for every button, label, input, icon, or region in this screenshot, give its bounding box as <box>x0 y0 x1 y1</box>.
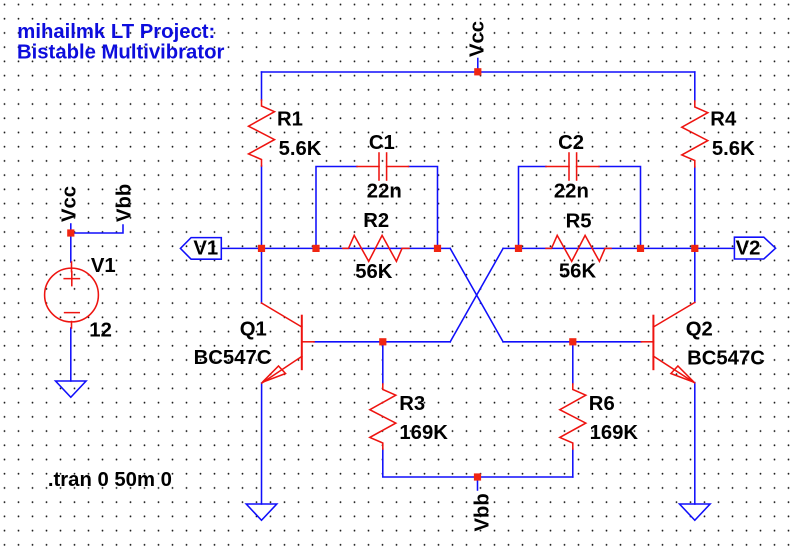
wire: Q2 collector riser <box>694 248 696 302</box>
wire: cross-coupling diagonal B (R5 left to Q1 base) <box>450 248 503 341</box>
ground: below V1 source <box>56 381 87 397</box>
voltage source V1 minus sign <box>65 312 80 314</box>
capacitor C2 right plate <box>576 153 578 180</box>
resistor R6 body <box>560 384 586 449</box>
svg-text:V1: V1 <box>91 255 116 277</box>
svg-text:169K: 169K <box>399 422 448 444</box>
svg-text:5.6K: 5.6K <box>712 138 755 160</box>
junction: Vbb bottom rail <box>474 473 481 480</box>
junction: node V2 at R4 / Q2 collector <box>691 245 698 252</box>
svg-text:Q1: Q1 <box>240 319 267 341</box>
svg-text:56K: 56K <box>355 261 393 283</box>
junction: node V1 at C1 left <box>312 245 319 252</box>
wire: Q2 base horizontal <box>503 341 641 343</box>
wire: V1 source top lead <box>70 224 72 262</box>
svg-text:R5: R5 <box>566 210 592 232</box>
transistor Q1 base lead <box>302 341 314 343</box>
svg-text:Vbb: Vbb <box>472 493 494 531</box>
capacitor C1 right lead <box>387 166 409 168</box>
wire: right column R4 to node V2 <box>694 167 696 248</box>
voltage source V1 plus sign <box>64 272 79 286</box>
transistor Q2 collector line <box>653 302 694 327</box>
svg-text:BC547C: BC547C <box>194 347 272 369</box>
wire: Vbb bottom label stub <box>477 477 479 490</box>
junction: Q1 base / R3 top <box>379 338 386 345</box>
resistor R2 body <box>343 235 409 261</box>
resistor R3 body <box>370 384 396 449</box>
svg-text:5.6K: 5.6K <box>279 138 322 160</box>
wire: node V2 horizontal row <box>503 247 734 249</box>
resistor R5 body <box>546 235 611 261</box>
transistor Q1 emitter line <box>262 356 302 383</box>
port flag V1 <box>180 238 221 260</box>
capacitor C2 left plate <box>568 153 570 180</box>
resistor R4 body <box>682 101 708 167</box>
wire: left column above R1 <box>261 72 263 100</box>
svg-text:Vbb: Vbb <box>114 184 136 222</box>
junction: node V1 at R1 / Q1 collector <box>258 245 265 252</box>
resistor R1 body <box>249 100 275 166</box>
ground: below Q2 emitter <box>680 504 711 520</box>
wire: node V1 horizontal row <box>221 247 450 249</box>
wire: left column R1 to node V1 <box>261 166 263 248</box>
wire: cross-coupling diagonal A (R2 right to Q2 base) <box>450 248 503 341</box>
voltage source V1 top pin lead <box>71 262 73 272</box>
svg-text:C2: C2 <box>558 132 584 154</box>
junction: node V2 at C2 right <box>637 245 644 252</box>
ground: below Q1 emitter <box>246 504 277 520</box>
wire: Q2 emitter to ground <box>694 383 696 504</box>
svg-text:R4: R4 <box>710 108 737 130</box>
voltage source V1 bottom pin lead <box>71 322 73 329</box>
wire: right column above R4 <box>694 72 696 101</box>
port flag V2 <box>734 237 775 259</box>
transistor Q1 collector line <box>262 303 302 327</box>
junction: Q2 base / R6 top <box>569 338 576 345</box>
wire: R3 bottom to Vbb rail <box>383 449 573 477</box>
svg-text:.tran 0 50m 0: .tran 0 50m 0 <box>48 469 172 491</box>
svg-text:R3: R3 <box>399 393 425 415</box>
transistor Q2 emitter line <box>653 356 694 383</box>
svg-text:V1: V1 <box>193 238 218 260</box>
svg-text:Q2: Q2 <box>686 319 713 341</box>
wire: R6 top lead <box>572 342 574 384</box>
wire: R6 bottom lead <box>572 449 574 477</box>
svg-text:R2: R2 <box>363 210 389 232</box>
wire: Q1 base horizontal <box>314 341 450 343</box>
svg-text:C1: C1 <box>369 132 395 154</box>
wire: C2 left riser <box>519 167 547 249</box>
wire: C2 right riser <box>599 167 641 249</box>
voltage source V1 circle <box>45 268 99 322</box>
wire: Vcc top rail <box>262 71 695 73</box>
junction: V1 source top node <box>67 229 74 236</box>
svg-text:V2: V2 <box>736 238 761 260</box>
transistor Q2 base lead <box>641 341 653 343</box>
svg-text:Vcc: Vcc <box>467 21 489 57</box>
wire: Q1 collector riser <box>261 248 263 303</box>
transistor Q2 emitter arrow <box>671 366 694 382</box>
junction: R2 right / C1 right node <box>434 245 441 252</box>
transistor Q1 emitter arrow <box>262 366 285 382</box>
capacitor C1 right plate <box>386 153 388 180</box>
svg-text:mihailmk LT Project:: mihailmk LT Project: <box>17 21 215 43</box>
svg-text:169K: 169K <box>590 422 639 444</box>
wire: C1 right riser <box>409 167 438 249</box>
svg-text:BC547C: BC547C <box>687 347 765 369</box>
svg-text:22n: 22n <box>554 180 589 202</box>
capacitor C2 right lead <box>577 166 599 168</box>
svg-text:Bistable Multivibrator: Bistable Multivibrator <box>17 41 224 63</box>
transistor Q2 base bar <box>652 316 654 370</box>
wire: C1 left riser <box>316 167 357 249</box>
junction: R5 left / C2 left node <box>515 245 522 252</box>
junction: Vcc rail center <box>474 68 481 75</box>
capacitor C1 left lead <box>357 166 379 168</box>
wire: Vcc label stub <box>477 59 479 73</box>
transistor Q1 base bar <box>301 316 303 370</box>
wire: R3 top lead <box>382 342 384 384</box>
svg-text:R1: R1 <box>277 108 303 130</box>
wire: V1 source bottom lead to ground <box>70 328 72 381</box>
svg-text:R6: R6 <box>589 393 615 415</box>
wire: Q1 emitter to ground <box>261 383 263 504</box>
capacitor C2 left lead <box>546 166 569 168</box>
svg-text:56K: 56K <box>559 260 597 282</box>
capacitor C1 left plate <box>378 153 380 180</box>
svg-text:22n: 22n <box>367 180 402 202</box>
wire: Vcc to Vbb link with Vbb stub <box>71 225 123 233</box>
svg-text:12: 12 <box>89 320 112 342</box>
svg-text:Vcc: Vcc <box>59 186 81 222</box>
